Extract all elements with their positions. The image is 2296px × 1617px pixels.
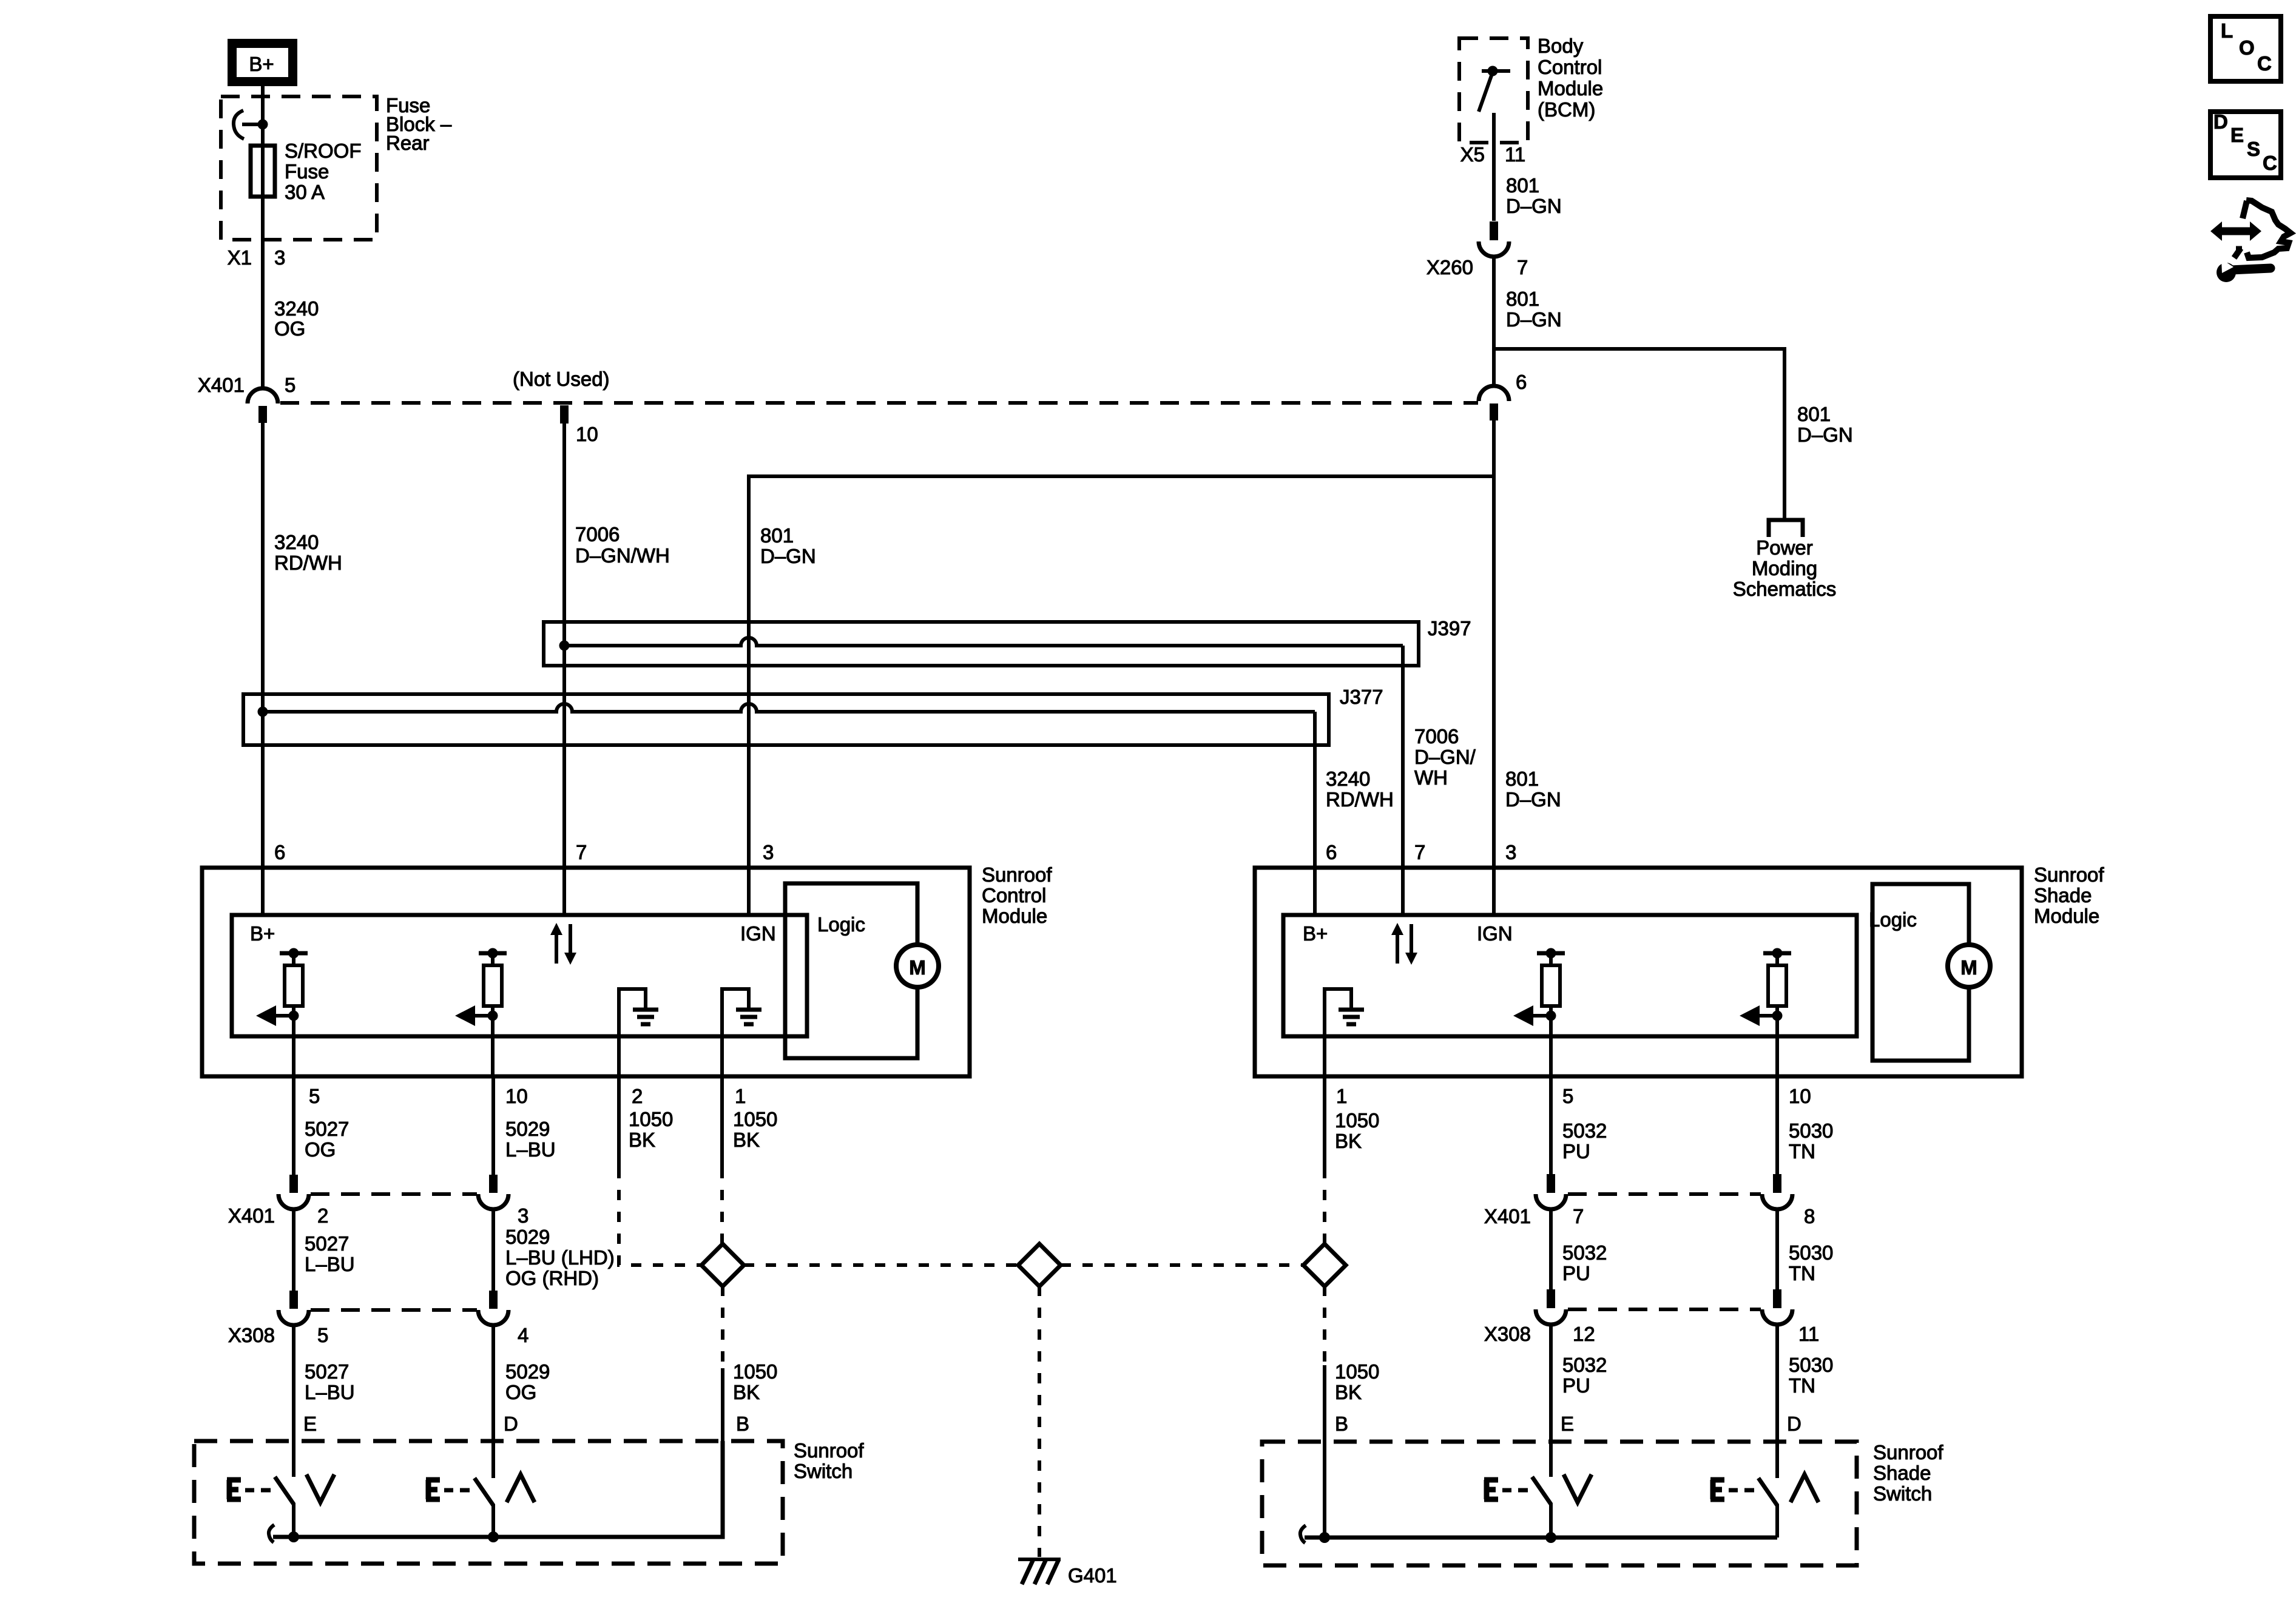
- switch S3 down contact E: [1484, 1480, 1498, 1499]
- connector pin 6 (arch): [1479, 386, 1509, 401]
- internal ground (pin1): [1325, 989, 1351, 1036]
- wire 7006 D-GN/WH: [562, 424, 566, 915]
- svg-text:TN: TN: [1789, 1374, 1815, 1397]
- bus continuation hook: [269, 1525, 274, 1542]
- wire shade pin5 to X401: [1549, 1076, 1553, 1174]
- bus continuation hook: [1300, 1525, 1306, 1543]
- svg-text:Power: Power: [1756, 536, 1813, 559]
- junction dot S3: [1545, 1532, 1556, 1543]
- svg-text:1: 1: [735, 1085, 746, 1107]
- wire pin1 dashed: [720, 1168, 724, 1244]
- svg-text:Moding: Moding: [1752, 557, 1817, 579]
- Sunroof Control Module outer box: [202, 868, 970, 1076]
- svg-text:7006: 7006: [575, 523, 620, 545]
- svg-text:TN: TN: [1789, 1140, 1815, 1163]
- svg-text:L: L: [2221, 19, 2233, 42]
- svg-text:L–BU: L–BU: [305, 1253, 355, 1275]
- wire pin5 to X401: [292, 1076, 295, 1175]
- svg-text:Shade: Shade: [2034, 884, 2092, 906]
- clip lead wire: [242, 123, 263, 126]
- wire pin10 inside module: [1775, 1016, 1779, 1076]
- wire 801 down to shade module: [1492, 420, 1496, 915]
- svg-text:5029: 5029: [505, 1118, 550, 1140]
- svg-text:7006: 7006: [1414, 725, 1459, 748]
- svg-text:7: 7: [576, 841, 587, 863]
- svg-text:7: 7: [1414, 841, 1425, 863]
- svg-text:12: 12: [1573, 1323, 1595, 1345]
- svg-text:E: E: [2230, 124, 2244, 146]
- svg-text:OG: OG: [505, 1381, 536, 1403]
- motor M2 circle: [1948, 945, 1990, 987]
- svg-text:Sunroof: Sunroof: [982, 863, 1052, 886]
- svg-text:OG: OG: [274, 317, 305, 340]
- svg-text:B+: B+: [1303, 922, 1328, 945]
- svg-text:L–BU: L–BU: [505, 1138, 556, 1161]
- wire BCM output: [1492, 113, 1496, 221]
- svg-text:801: 801: [1505, 768, 1539, 790]
- wire shade pin10 to X401: [1775, 1076, 1779, 1174]
- svg-text:D: D: [2213, 110, 2228, 133]
- switch S4 up symbol: [1791, 1474, 1818, 1502]
- junction dot J377: [258, 707, 268, 717]
- wire X308 to switch D: [1775, 1324, 1779, 1478]
- svg-text:IGN: IGN: [740, 922, 776, 945]
- svg-text:30 A: 30 A: [285, 181, 325, 203]
- wire J377 to shade pin6: [1313, 712, 1317, 915]
- svg-text:801: 801: [1797, 403, 1831, 425]
- svg-text:J397: J397: [1428, 617, 1471, 640]
- wire pin1 inside module: [1323, 989, 1326, 1076]
- resistor R3 (pin5 drive): [1537, 951, 1565, 956]
- svg-text:5030: 5030: [1789, 1354, 1833, 1376]
- wire pin10 inside module: [491, 1016, 495, 1076]
- svg-text:3: 3: [1505, 841, 1516, 863]
- svg-text:(BCM): (BCM): [1538, 98, 1595, 121]
- Sunroof Shade Switch dashed box: [1262, 1442, 1857, 1565]
- wire diamond1 down dashed: [721, 1286, 724, 1368]
- svg-text:3240: 3240: [274, 297, 319, 320]
- svg-text:2: 2: [317, 1204, 328, 1227]
- svg-text:B: B: [1335, 1413, 1348, 1435]
- internal ground 2 (pin1): [722, 989, 749, 1036]
- svg-text:1050: 1050: [629, 1108, 673, 1130]
- ground bus dashed d1-d2: [744, 1263, 1019, 1267]
- wire S1 to bus: [292, 1503, 295, 1537]
- svg-text:RD/WH: RD/WH: [1326, 788, 1394, 811]
- resistor R4 (pin10 drive): [1763, 951, 1791, 956]
- svg-text:O: O: [2239, 36, 2255, 59]
- svg-text:Fuse: Fuse: [285, 160, 329, 183]
- svg-text:5030: 5030: [1789, 1119, 1833, 1142]
- svg-text:3: 3: [763, 841, 774, 863]
- svg-text:L–BU (LHD): L–BU (LHD): [505, 1246, 615, 1269]
- svg-text:8: 8: [1804, 1205, 1815, 1227]
- svg-text:X401: X401: [1484, 1205, 1531, 1227]
- svg-text:S: S: [2247, 138, 2260, 160]
- wire pin2 ground lead: [617, 1076, 621, 1168]
- wire pin5 inside module: [292, 1016, 295, 1076]
- svg-text:Logic: Logic: [817, 913, 865, 936]
- svg-text:7: 7: [1517, 256, 1528, 279]
- svg-text:PU: PU: [1562, 1262, 1590, 1284]
- svg-text:801: 801: [1506, 288, 1539, 310]
- switch S3 down symbol: [1564, 1474, 1592, 1502]
- wire branch to power moding: [1494, 349, 1784, 520]
- svg-text:D–GN: D–GN: [1797, 424, 1853, 446]
- wire J397 to shade pin7: [1401, 646, 1405, 915]
- svg-text:3240: 3240: [274, 531, 319, 553]
- svg-text:5027: 5027: [305, 1232, 349, 1255]
- svg-text:WH: WH: [1414, 766, 1448, 789]
- svg-text:S/ROOF: S/ROOF: [285, 140, 362, 162]
- wire pin2 dashed to ground bus: [619, 1168, 701, 1265]
- connector X308 pin 11 (pin + cup): [1773, 1289, 1781, 1308]
- svg-text:X260: X260: [1427, 256, 1473, 279]
- svg-text:6: 6: [274, 841, 285, 863]
- svg-text:D–GN/: D–GN/: [1414, 746, 1476, 768]
- splice J397 inner wire: [564, 638, 1403, 646]
- svg-text:RD/WH: RD/WH: [274, 552, 342, 574]
- connector X401 pin 3 (pin + cup): [489, 1175, 498, 1193]
- wire S2 to bus: [491, 1504, 495, 1537]
- X401 dashed line: [311, 1192, 477, 1196]
- wire pin1 inside module: [720, 989, 724, 1076]
- connector X401 pin 7 (pin + cup): [1547, 1174, 1555, 1193]
- svg-text:C: C: [2263, 152, 2277, 174]
- LOC icon box: [2210, 16, 2281, 81]
- wire X401 to X308 (left): [292, 1209, 295, 1291]
- resistor R2 (pin10 drive): [479, 951, 507, 956]
- DESC icon box: [2210, 112, 2281, 178]
- up/down arrows: [1396, 933, 1399, 964]
- svg-text:6: 6: [1326, 841, 1337, 863]
- wire shade pin1 ground lead: [1323, 1076, 1326, 1168]
- ground bus splice diamond 1: [701, 1244, 744, 1286]
- wire pin10 to X401: [491, 1076, 495, 1175]
- wire pin1 dashed to diamond: [1323, 1168, 1326, 1244]
- junction dot S1: [288, 1531, 299, 1542]
- wire pin1 ground lead: [720, 1076, 724, 1168]
- svg-text:Logic: Logic: [1869, 908, 1917, 931]
- svg-text:D: D: [504, 1413, 518, 1435]
- svg-text:X401: X401: [228, 1204, 275, 1227]
- svg-text:(Not Used): (Not Used): [513, 368, 610, 390]
- svg-text:5: 5: [309, 1085, 320, 1107]
- svg-text:2: 2: [632, 1085, 643, 1107]
- wire pin5 inside module: [1549, 1016, 1553, 1076]
- svg-text:Body: Body: [1538, 35, 1584, 57]
- svg-text:Shade: Shade: [1873, 1462, 1931, 1484]
- svg-text:3: 3: [518, 1204, 528, 1227]
- svg-text:B+: B+: [249, 53, 274, 75]
- svg-text:Control: Control: [982, 884, 1046, 906]
- svg-text:801: 801: [1506, 174, 1539, 197]
- switch S4 up contact E: [1710, 1480, 1724, 1499]
- svg-text:X5: X5: [1460, 143, 1485, 166]
- wire B+ to fuse: [261, 86, 265, 389]
- svg-text:Switch: Switch: [1873, 1482, 1932, 1505]
- svg-text:OG: OG: [305, 1138, 336, 1161]
- svg-text:5029: 5029: [505, 1360, 550, 1383]
- svg-text:Sunroof: Sunroof: [794, 1439, 864, 1462]
- svg-text:M: M: [909, 956, 926, 979]
- connector service icon (double arrow): [2220, 228, 2252, 235]
- B+ terminal box: [232, 44, 293, 82]
- svg-text:5032: 5032: [1562, 1354, 1607, 1376]
- module inner box: [1283, 915, 1857, 1036]
- junction dot S2: [488, 1531, 499, 1542]
- svg-text:D–GN/WH: D–GN/WH: [575, 544, 670, 567]
- svg-text:6: 6: [1516, 371, 1527, 393]
- svg-text:Schematics: Schematics: [1733, 578, 1837, 600]
- svg-text:5: 5: [1562, 1085, 1573, 1107]
- splice pack J377 box: [243, 694, 1329, 745]
- svg-text:1050: 1050: [1335, 1109, 1379, 1132]
- shade switch common bus: [1305, 1536, 1777, 1540]
- Sunroof Shade Module outer box: [1255, 868, 2022, 1076]
- logic box: [1872, 884, 1969, 1061]
- module inner box: [232, 915, 807, 1036]
- svg-text:5: 5: [317, 1324, 328, 1346]
- svg-text:D–GN: D–GN: [1506, 308, 1562, 331]
- svg-text:10: 10: [576, 423, 598, 445]
- svg-text:Rear: Rear: [386, 132, 430, 154]
- Body Control Module dashed box: [1459, 38, 1528, 143]
- svg-text:5027: 5027: [305, 1118, 349, 1140]
- svg-text:3: 3: [274, 246, 285, 269]
- svg-text:1: 1: [1336, 1085, 1347, 1107]
- svg-text:11: 11: [1798, 1323, 1819, 1345]
- X401 pin 10 terminal: [560, 405, 569, 424]
- connector service icon (wrench): [2217, 263, 2236, 282]
- svg-text:7: 7: [1573, 1205, 1584, 1227]
- svg-text:D–GN: D–GN: [1506, 195, 1562, 217]
- wire X401 to X308 (right): [1549, 1209, 1553, 1289]
- junction dot J397: [559, 641, 570, 651]
- up/down arrows: [555, 933, 558, 964]
- switch S2 blade: [474, 1478, 493, 1505]
- svg-text:5: 5: [285, 374, 295, 396]
- connector X401 pin 5 (arch): [248, 388, 278, 403]
- motor M1 circle: [896, 945, 939, 987]
- connector service icon (hand outline): [2246, 200, 2291, 258]
- svg-text:OG (RHD): OG (RHD): [505, 1267, 599, 1289]
- switch S1 down symbol: [306, 1474, 334, 1502]
- connector X401 pin 2 (pin + cup): [289, 1175, 298, 1193]
- svg-text:BK: BK: [733, 1381, 760, 1403]
- BCM internal switch contact: [1482, 69, 1510, 73]
- svg-text:D: D: [1787, 1413, 1801, 1435]
- wire X308 to switch D: [491, 1325, 495, 1478]
- svg-text:X401: X401: [198, 374, 245, 396]
- wire 1050 BK into switch: [721, 1368, 724, 1441]
- fuse block rear dashed box: [221, 96, 377, 240]
- svg-text:1050: 1050: [733, 1108, 777, 1130]
- junction dot clip: [258, 120, 268, 130]
- svg-text:B+: B+: [250, 922, 275, 945]
- wire 3240 RD/WH (B+ feed): [261, 423, 265, 915]
- wire to G401 dashed: [1038, 1286, 1041, 1557]
- fuse F1 S/ROOF 30A body: [251, 146, 275, 197]
- svg-text:J377: J377: [1340, 686, 1383, 708]
- connector X308 pin 5 (pin + cup): [289, 1291, 298, 1309]
- svg-text:Module: Module: [2034, 905, 2099, 927]
- internal ground 1 (pin2): [619, 989, 646, 1036]
- svg-text:BK: BK: [1335, 1130, 1362, 1152]
- connector X308 pin 4 (pin + cup): [489, 1291, 498, 1309]
- svg-text:Sunroof: Sunroof: [1873, 1441, 1943, 1463]
- X308 dashed line (right): [1568, 1308, 1761, 1311]
- connector X260 pin 7 (pin + cup): [1490, 221, 1498, 240]
- svg-text:IGN: IGN: [1477, 922, 1513, 945]
- svg-text:10: 10: [505, 1085, 528, 1107]
- clip symbol: [234, 110, 244, 139]
- svg-text:X1: X1: [228, 246, 252, 269]
- svg-text:11: 11: [1505, 143, 1525, 166]
- switch S1 down contact E: [227, 1480, 241, 1499]
- wire pin2 inside module: [617, 989, 621, 1076]
- off-page connector (goalpost): [1769, 520, 1803, 537]
- svg-text:5030: 5030: [1789, 1241, 1833, 1264]
- svg-text:Sunroof: Sunroof: [2034, 863, 2104, 886]
- svg-text:G401: G401: [1068, 1564, 1117, 1587]
- svg-text:BK: BK: [629, 1129, 655, 1151]
- Sunroof Switch dashed box: [194, 1441, 783, 1564]
- svg-text:5032: 5032: [1562, 1241, 1607, 1264]
- wire 801 D-GN branch (horizontal): [749, 476, 1494, 915]
- X401 dashed connector line: [280, 401, 1478, 405]
- switch S2 up contact E: [426, 1480, 440, 1499]
- svg-text:5027: 5027: [305, 1360, 349, 1383]
- svg-text:L–BU: L–BU: [305, 1381, 355, 1403]
- svg-text:Control: Control: [1538, 56, 1602, 78]
- svg-text:10: 10: [1789, 1085, 1811, 1107]
- svg-text:TN: TN: [1789, 1262, 1815, 1284]
- svg-text:BK: BK: [733, 1129, 760, 1151]
- connector X401 pin 8 (pin + cup): [1773, 1174, 1781, 1193]
- X401 dashed line (right): [1568, 1192, 1761, 1196]
- svg-text:801: 801: [760, 524, 794, 547]
- svg-text:5029: 5029: [505, 1226, 550, 1248]
- connector X308 pin 12 (pin + cup): [1547, 1289, 1555, 1308]
- svg-text:C: C: [2257, 52, 2272, 75]
- svg-text:E: E: [303, 1413, 317, 1435]
- svg-text:PU: PU: [1562, 1140, 1590, 1163]
- wire diamond3 down dashed: [1323, 1286, 1326, 1365]
- svg-text:PU: PU: [1562, 1374, 1590, 1397]
- wire X308 to switch E: [1549, 1324, 1553, 1477]
- svg-text:Module: Module: [982, 905, 1047, 927]
- svg-text:4: 4: [518, 1324, 528, 1346]
- switch common bus: [273, 1441, 723, 1537]
- svg-text:X308: X308: [1484, 1323, 1531, 1345]
- svg-text:E: E: [1561, 1413, 1574, 1435]
- ground bus splice diamond 3: [1303, 1244, 1346, 1286]
- X308 dashed line: [311, 1308, 477, 1312]
- switch S2 up symbol: [507, 1474, 535, 1502]
- svg-text:M: M: [1960, 956, 1977, 979]
- switch S3 blade: [1532, 1477, 1551, 1504]
- junction dot B: [1319, 1532, 1330, 1543]
- splice J377 inner wire: [263, 704, 1315, 712]
- svg-text:3240: 3240: [1326, 768, 1370, 790]
- switch S1 blade: [275, 1477, 294, 1504]
- switch S4 blade: [1758, 1478, 1777, 1505]
- wire S3 to bus: [1549, 1503, 1553, 1538]
- wire 1050 BK into shade switch: [1323, 1365, 1326, 1538]
- logic box: [785, 883, 917, 1058]
- svg-text:Module: Module: [1538, 77, 1603, 100]
- wire X308 to switch E: [292, 1325, 295, 1477]
- svg-text:Switch: Switch: [794, 1460, 853, 1482]
- wire S4 to bus: [1775, 1504, 1779, 1538]
- resistor R1 (pin5 drive): [280, 951, 308, 956]
- svg-text:5032: 5032: [1562, 1119, 1607, 1142]
- wire X260 down: [1492, 255, 1496, 388]
- svg-text:1050: 1050: [733, 1360, 777, 1383]
- ground bus dashed d2-d3: [1061, 1263, 1304, 1267]
- svg-text:B: B: [736, 1413, 749, 1435]
- ground G401 symbol: [1018, 1558, 1061, 1561]
- svg-text:BK: BK: [1335, 1381, 1362, 1403]
- svg-text:D–GN: D–GN: [1505, 788, 1561, 811]
- ground bus splice diamond 2: [1018, 1244, 1061, 1286]
- svg-text:X308: X308: [228, 1324, 275, 1346]
- svg-text:D–GN: D–GN: [760, 545, 816, 567]
- splice pack J397 box: [544, 622, 1419, 666]
- BCM switch blade: [1479, 72, 1493, 112]
- svg-text:1050: 1050: [1335, 1360, 1379, 1383]
